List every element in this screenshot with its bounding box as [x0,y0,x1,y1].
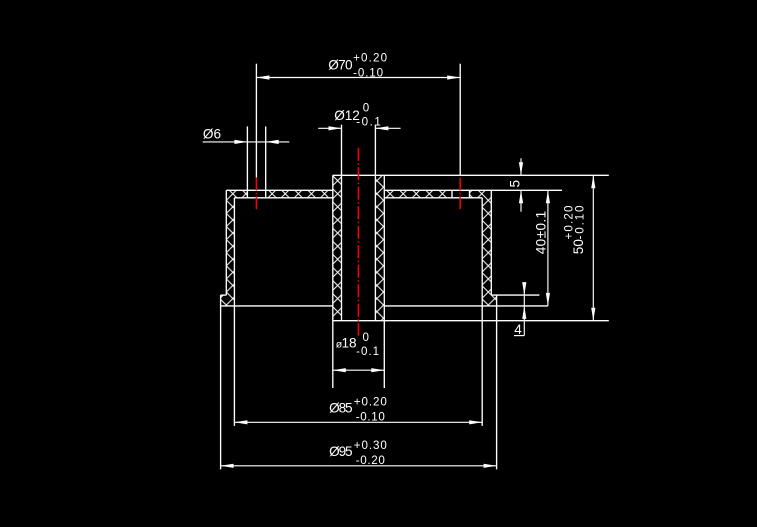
wire dim4 line [523,283,525,336]
svg-text:50: 50 [571,239,586,255]
node right hole centerline [459,178,461,210]
wire left wall inner + dia85 ext [233,198,235,426]
svg-text:+0.20: +0.20 [354,396,387,409]
dia95 right arrow [484,464,497,468]
wire dim5 line bottom [520,190,522,211]
svg-text:Ø70: Ø70 [328,58,353,73]
dia18 right arrow [371,368,384,372]
dia85 left arrow [234,420,247,424]
wire bottom flange bottom left [221,305,333,307]
wire tube outer left + dia18 ext [332,175,334,388]
wire dia70 dim line [256,77,460,79]
node main axis centerline [357,148,359,336]
wire dia70 ext right [459,64,461,176]
wire left step outer + dia95 ext [220,295,222,469]
dia70 right arrow [447,75,460,79]
svg-text:-0.10: -0.10 [356,410,385,423]
dia95 left arrow [221,464,234,468]
wire dim50 line [592,175,594,320]
wire left wall outer [225,190,227,295]
svg-text:18: 18 [342,336,357,351]
svg-text:0: 0 [363,331,369,344]
svg-text:-0.20: -0.20 [356,454,385,467]
dim50 top arrow [591,175,595,188]
wire step top right + ext [491,294,539,296]
wire dia12 dim line right [375,127,400,129]
wire dia85 dim line [234,421,482,423]
svg-text:5: 5 [507,180,522,188]
wire dim5 line top [520,158,522,175]
wire flange bottom left [234,197,332,199]
dia6 right arrow [266,140,279,144]
wire bore left + dia12 ext [341,125,343,321]
dim40 bottom arrow [546,293,550,306]
red centerlines [256,148,460,336]
svg-text:0: 0 [363,101,369,114]
hatch regions [221,175,497,320]
dimension texts [203,51,586,467]
wire right wall outer [490,190,492,295]
svg-text:-0.1: -0.1 [356,345,379,358]
dia12 right arrow [375,126,388,130]
wire right hole right edge [469,190,471,198]
arrowheads [221,75,596,468]
dim5 top arrow [519,162,523,175]
dia18 left arrow [333,368,346,372]
wire dim40 line [547,190,549,306]
wire dia18 dim line [333,369,385,371]
dim4 top arrow [522,282,526,295]
svg-text:+0.20: +0.20 [353,51,387,64]
dim40 top arrow [546,190,550,203]
svg-text:-0.10: -0.10 [353,67,383,80]
wire left hole left edge + dia6 ext [246,126,248,197]
wire dia12 dim line left [318,127,341,129]
wire right hole left edge [451,190,453,198]
svg-text:-0.10: -0.10 [573,206,586,240]
dia6 left arrow [234,140,247,144]
dim50 bottom arrow [591,308,595,321]
wire tube outer right + dia18 ext [383,175,385,388]
wire dia70 ext left [255,64,257,178]
svg-text:40±0.1: 40±0.1 [534,211,549,255]
wire left hole right edge + dia6 ext [265,126,267,197]
dimension lines [203,78,594,466]
dim4 bottom arrow [522,306,526,319]
wire bottom flange bottom right + ext [384,305,548,307]
wire dim4 text underline [514,335,524,337]
svg-text:+0.30: +0.30 [354,439,387,452]
wire step top left [221,294,227,296]
dia70 left arrow [256,75,269,79]
wire dia95 dim line [221,465,497,467]
wire right step outer + dia95 ext [496,295,498,469]
node left hole centerline [255,178,257,210]
wire tube top + ext [333,174,609,176]
wire bore right + dia12 ext [374,125,376,321]
wire flange bottom right [384,197,482,199]
svg-text:Ø95: Ø95 [329,444,353,459]
wire part top flange top edge left [226,189,332,191]
wire right wall inner + dia85 ext [481,198,483,426]
wire part top flange top edge right + ext [384,189,562,191]
svg-text:4: 4 [514,322,522,337]
svg-text:Ø85: Ø85 [329,401,353,416]
dia85 right arrow [469,420,482,424]
dim5 bottom arrow [519,190,523,203]
wire tube bottom + ext [333,320,609,322]
wire dia6 dim line [203,141,290,143]
svg-text:Ø6: Ø6 [203,127,221,142]
dia12 left arrow [329,126,342,130]
